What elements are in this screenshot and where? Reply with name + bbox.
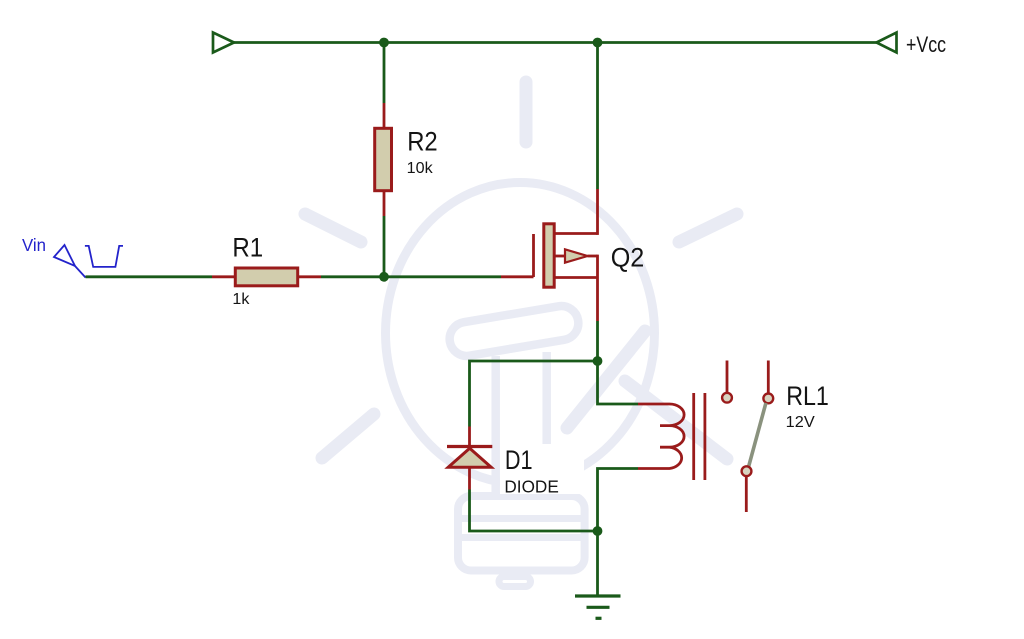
junction top rail R2 — [379, 38, 389, 48]
wire to ground — [596, 531, 599, 596]
wire relay coil bottom — [598, 469, 662, 532]
watermark light bulb logo — [305, 82, 737, 587]
svg-text:1k: 1k — [232, 291, 250, 308]
resistor R2 — [375, 127, 438, 191]
label background D1 — [500, 444, 584, 494]
terminal +Vcc right — [877, 33, 897, 53]
ground — [575, 596, 621, 618]
transistor Q2 — [534, 224, 645, 287]
svg-text:10k: 10k — [407, 160, 434, 177]
wire Vin to R1 — [86, 275, 236, 278]
svg-text:Vin: Vin — [22, 235, 46, 255]
svg-text:RL1: RL1 — [786, 381, 829, 411]
wire diode bottom — [470, 468, 598, 532]
wire R1 to node A — [298, 275, 384, 278]
junction ground node — [593, 526, 603, 536]
terminal input left — [213, 33, 234, 53]
svg-text:D1: D1 — [505, 445, 533, 475]
generator Vin — [22, 235, 123, 278]
junction source node — [593, 356, 603, 366]
wire source down — [596, 255, 599, 361]
svg-text:DIODE: DIODE — [504, 477, 558, 497]
wire top rail +Vcc — [234, 41, 877, 44]
wire gate — [384, 275, 534, 278]
junction top rail Q2 — [593, 38, 603, 48]
wire R2 bottom — [383, 191, 386, 277]
svg-text:R1: R1 — [232, 232, 263, 262]
resistor R1 — [232, 232, 297, 308]
svg-text:12V: 12V — [786, 414, 815, 431]
junction node A gate — [379, 272, 389, 282]
diode D1 — [447, 445, 559, 497]
wire drain from rail — [596, 43, 599, 235]
wire node to diode top — [470, 361, 598, 447]
svg-text:+Vcc: +Vcc — [906, 32, 946, 57]
svg-text:Q2: Q2 — [611, 242, 645, 272]
wire node to relay coil top — [598, 361, 662, 404]
wire R2 top — [383, 43, 386, 129]
svg-text:R2: R2 — [407, 127, 438, 157]
relay RL1 — [660, 361, 829, 513]
